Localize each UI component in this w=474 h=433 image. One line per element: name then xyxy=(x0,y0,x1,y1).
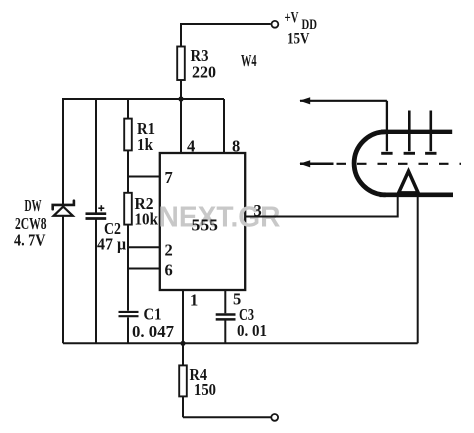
svg-text:7: 7 xyxy=(165,168,173,187)
svg-text:1k: 1k xyxy=(137,135,153,154)
svg-text:2: 2 xyxy=(165,241,173,260)
svg-text:DW: DW xyxy=(25,196,42,215)
svg-text:1: 1 xyxy=(190,291,198,310)
svg-text:3: 3 xyxy=(254,201,262,220)
svg-text:220: 220 xyxy=(192,63,216,82)
svg-text:4. 7V: 4. 7V xyxy=(14,231,46,250)
svg-text:150: 150 xyxy=(194,380,216,399)
svg-text:W4: W4 xyxy=(241,51,257,70)
svg-text:47 μ: 47 μ xyxy=(97,235,126,254)
svg-text:0. 01: 0. 01 xyxy=(237,321,267,340)
svg-text:15V: 15V xyxy=(287,31,310,48)
svg-text:5: 5 xyxy=(233,290,241,309)
svg-text:555: 555 xyxy=(192,216,219,235)
svg-text:8: 8 xyxy=(232,137,240,156)
svg-text:6: 6 xyxy=(165,261,173,280)
svg-text:10k: 10k xyxy=(135,210,159,229)
svg-text:C1: C1 xyxy=(144,305,162,324)
svg-text:4: 4 xyxy=(187,137,195,156)
svg-text:+V: +V xyxy=(285,10,300,27)
svg-text:0. 047: 0. 047 xyxy=(132,322,174,341)
